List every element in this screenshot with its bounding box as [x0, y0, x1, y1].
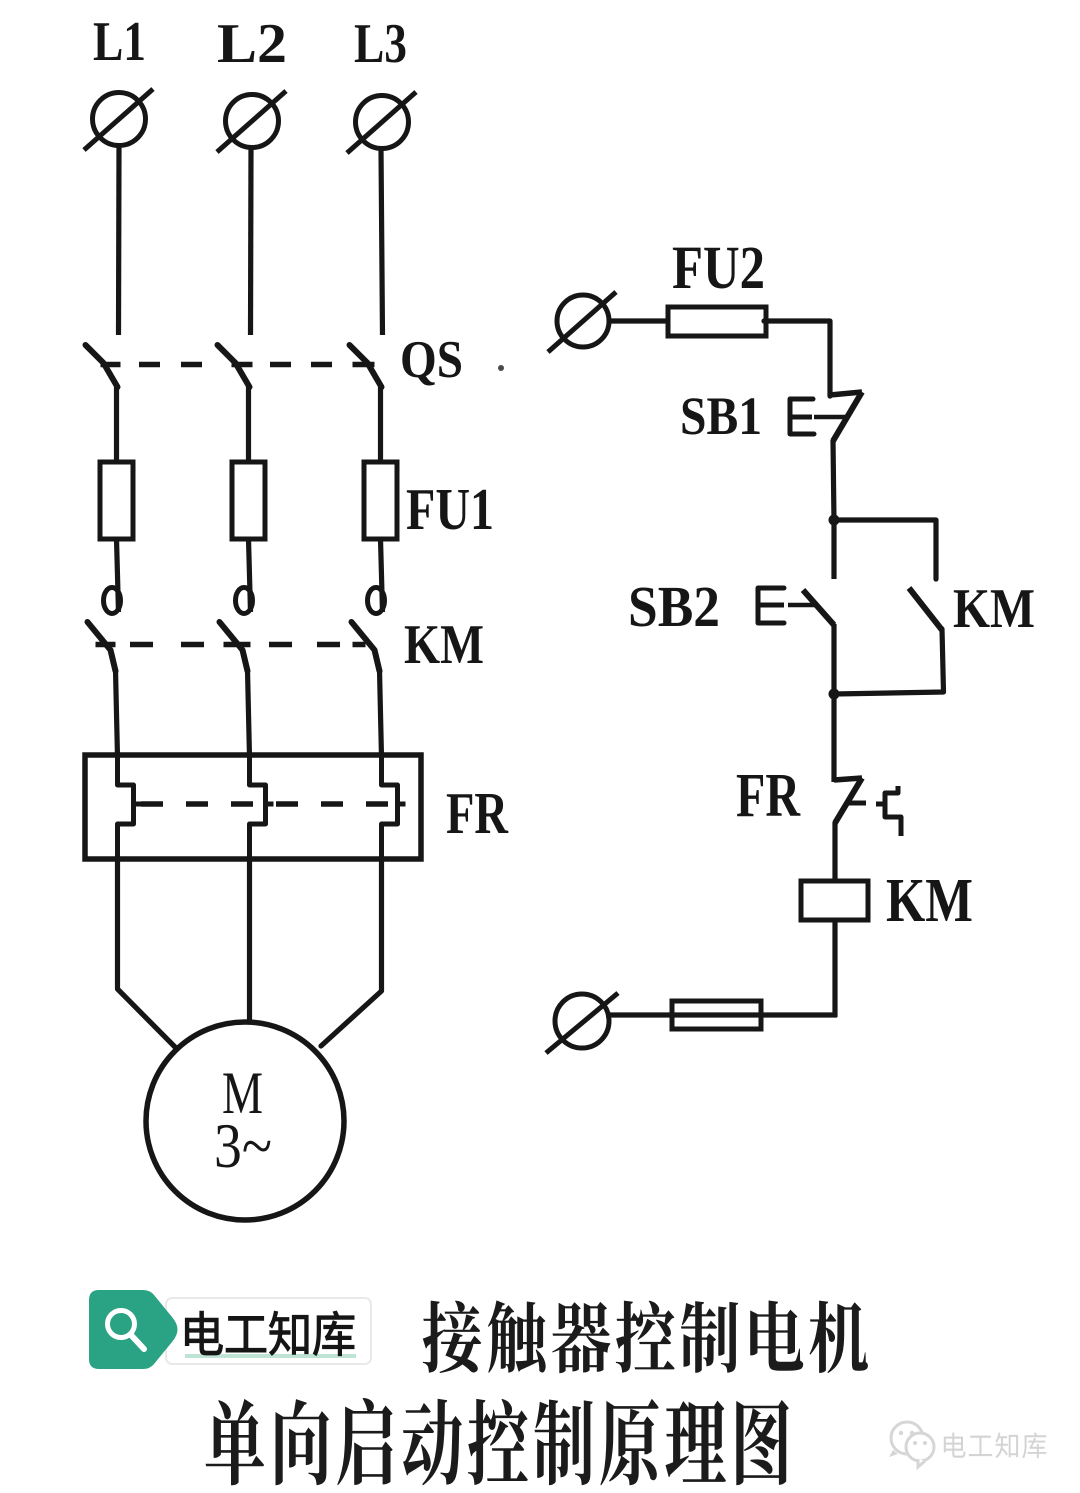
logo text box — [166, 1298, 371, 1364]
fuse FU2 — [668, 307, 766, 336]
wire FR to motor pole 1 — [118, 859, 176, 1047]
contactor coil KM — [801, 881, 868, 920]
wire KM coil down — [832, 920, 837, 1017]
wire SB1 to node A — [833, 440, 834, 522]
KM linkage dashed line — [130, 642, 153, 648]
svg-text:SB2: SB2 — [628, 574, 720, 639]
wire FU2 to SB1 — [764, 321, 830, 396]
svg-text:QS: QS — [400, 331, 463, 389]
wire FU1 to KM pole 1 — [117, 539, 119, 612]
wire L2 to QS — [248, 148, 254, 335]
node B junction dot — [829, 689, 840, 700]
svg-text:KM: KM — [953, 578, 1035, 640]
FR heater element pole 1 — [118, 755, 134, 859]
pushbutton SB2 contact — [803, 590, 834, 625]
contactor KM main contact pole 3 — [368, 588, 385, 614]
switch QS pole 2 blade — [218, 345, 250, 387]
svg-text:KM: KM — [404, 614, 484, 676]
svg-text:3~: 3~ — [214, 1111, 272, 1181]
switch QS pole 3 blade — [350, 345, 382, 387]
wire QS to FU1 pole 3 — [378, 385, 383, 464]
contactor KM main contact pole 2 — [236, 588, 253, 614]
svg-text:L2: L2 — [217, 13, 287, 75]
thermal relay FR box — [85, 755, 421, 859]
svg-text:FR: FR — [446, 780, 509, 846]
dot after QS — [498, 365, 504, 371]
wire node A to KM aux — [834, 520, 936, 579]
svg-text:L1: L1 — [93, 11, 146, 73]
control terminal bottom — [555, 994, 609, 1048]
logo magnifier icon — [108, 1311, 135, 1338]
FR heater element pole 3 — [382, 755, 398, 859]
node A junction dot — [829, 515, 840, 526]
wire L3 to QS — [381, 149, 383, 335]
fuse FU1 pole 3 — [364, 462, 397, 539]
FR linkage dashed line — [141, 801, 163, 807]
svg-text:FU2: FU2 — [672, 235, 765, 302]
wire FU1 to KM pole 2 — [249, 539, 251, 612]
wire KM aux to node B — [834, 629, 944, 694]
wire FR to motor pole 3 — [321, 859, 382, 1046]
caption line 2 单向启动控制原理图 — [206, 1398, 789, 1485]
wire KM to FR pole 2 — [248, 670, 250, 757]
wire KM to FR pole 3 — [380, 670, 382, 757]
FR heater element pole 2 — [250, 755, 266, 859]
watermark text 电工知库 — [944, 1433, 1047, 1459]
pushbutton SB1 contact — [830, 392, 862, 395]
wire FU1 to KM pole 3 — [381, 539, 383, 612]
wire terminal to FU2 — [608, 318, 670, 323]
wire node B to FR contact — [831, 694, 836, 782]
fuse FU1 pole 1 — [100, 462, 133, 539]
wire FR to motor pole 2 — [247, 859, 252, 1023]
wire QS to FU1 pole 1 — [114, 385, 119, 464]
svg-text:SB1: SB1 — [680, 386, 762, 446]
contactor KM main contact pole 1 — [104, 588, 121, 614]
svg-text:FU1: FU1 — [406, 476, 494, 542]
motor M circle — [146, 1022, 344, 1220]
terminal L3 — [356, 96, 409, 149]
terminal L1 — [93, 93, 146, 146]
wire L1 to QS — [116, 146, 122, 335]
logo text 电工知库 — [185, 1311, 355, 1357]
logo badge (green tag) — [89, 1290, 178, 1369]
switch QS pole 1 blade — [86, 345, 118, 387]
wire coil to bottom fuse — [606, 1012, 837, 1017]
svg-text:L3: L3 — [354, 13, 407, 75]
wire QS to FU1 pole 2 — [246, 385, 251, 464]
wire SB2 to node B — [831, 624, 836, 696]
wire FR contact to KM coil — [832, 822, 837, 883]
svg-text:KM: KM — [886, 867, 973, 935]
wire KM to FR pole 1 — [116, 670, 118, 757]
caption line 1 接触器控制电机 — [423, 1300, 868, 1373]
thermal relay FR contact — [834, 778, 862, 780]
fuse FU1 pole 2 — [232, 462, 265, 539]
watermark wechat icon — [889, 1422, 934, 1467]
control terminal top — [557, 295, 609, 347]
contactor KM auxiliary contact — [909, 588, 942, 630]
terminal L2 — [226, 95, 279, 148]
bottom fuse — [672, 1001, 761, 1029]
QS linkage dashed line — [139, 362, 160, 368]
wire node A to SB2 — [831, 520, 836, 579]
svg-text:FR: FR — [736, 762, 801, 830]
